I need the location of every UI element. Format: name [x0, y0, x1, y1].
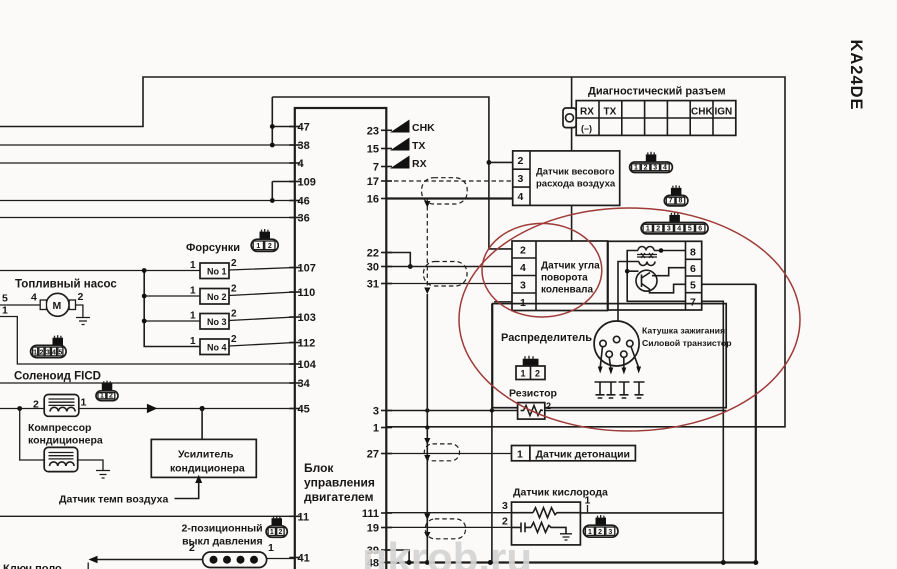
svg-text:46: 46: [298, 196, 310, 208]
svg-text:23: 23: [367, 125, 379, 137]
svg-text:Резистор: Резистор: [509, 388, 557, 400]
svg-text:Топливный насос: Топливный насос: [15, 279, 117, 291]
svg-text:8: 8: [678, 198, 682, 205]
svg-text:Датчик кислорода: Датчик кислорода: [513, 487, 608, 499]
svg-text:M: M: [53, 300, 62, 312]
svg-text:1: 1: [588, 529, 592, 536]
svg-text:CHK: CHK: [691, 107, 713, 118]
svg-text:2: 2: [502, 516, 508, 528]
svg-text:2: 2: [268, 243, 272, 250]
svg-text:2: 2: [520, 245, 526, 257]
svg-text:1: 1: [521, 369, 526, 379]
svg-text:6: 6: [690, 263, 696, 275]
svg-text:No 4: No 4: [207, 343, 227, 353]
svg-text:4: 4: [520, 262, 526, 274]
svg-text:RX: RX: [580, 107, 594, 118]
svg-text:19: 19: [367, 523, 379, 535]
svg-text:RX: RX: [412, 158, 427, 170]
svg-text:5: 5: [58, 350, 62, 357]
svg-text:Усилитель: Усилитель: [178, 449, 234, 461]
svg-text:пkrob.ru: пkrob.ru: [362, 534, 532, 569]
svg-text:1: 1: [190, 286, 196, 297]
svg-text:4: 4: [31, 292, 37, 304]
svg-text:CHK: CHK: [412, 122, 435, 134]
svg-text:No 3: No 3: [207, 317, 227, 327]
svg-text:2: 2: [33, 399, 39, 411]
svg-text:2: 2: [231, 284, 237, 295]
svg-text:5: 5: [2, 293, 8, 305]
svg-text:45: 45: [298, 404, 310, 416]
svg-text:3: 3: [608, 529, 612, 536]
svg-text:(–): (–): [581, 124, 592, 134]
svg-text:Компрессор: Компрессор: [28, 422, 91, 434]
svg-text:Распределитель: Распределитель: [501, 332, 592, 344]
svg-text:47: 47: [298, 122, 310, 134]
svg-text:34: 34: [298, 378, 311, 390]
svg-text:No 2: No 2: [207, 292, 227, 302]
svg-text:расхода воздуха: расхода воздуха: [536, 179, 616, 190]
svg-text:TX: TX: [604, 107, 617, 118]
svg-text:112: 112: [298, 338, 316, 350]
svg-text:17: 17: [367, 176, 379, 188]
svg-text:7: 7: [373, 162, 379, 174]
svg-text:кондиционера: кондиционера: [170, 463, 245, 475]
svg-text:Силовой транзистор: Силовой транзистор: [642, 338, 732, 348]
svg-text:3: 3: [667, 226, 671, 233]
svg-text:1: 1: [33, 350, 37, 357]
svg-text:2-позиционный: 2-позиционный: [182, 523, 263, 535]
svg-text:7: 7: [690, 297, 696, 309]
svg-text:8: 8: [690, 247, 696, 259]
svg-text:31: 31: [367, 279, 379, 291]
svg-text:Ключ поло: Ключ поло: [3, 563, 62, 569]
svg-text:2: 2: [109, 392, 113, 399]
svg-text:1: 1: [256, 243, 260, 250]
svg-text:4: 4: [677, 226, 681, 233]
svg-text:2: 2: [535, 369, 540, 379]
svg-text:1: 1: [2, 305, 8, 317]
svg-text:103: 103: [298, 312, 316, 324]
svg-text:2: 2: [231, 334, 237, 345]
svg-text:TX: TX: [412, 140, 425, 152]
svg-text:4: 4: [518, 191, 524, 203]
svg-text:2: 2: [518, 155, 524, 167]
svg-text:2: 2: [78, 291, 84, 303]
svg-text:2: 2: [231, 258, 237, 269]
svg-text:15: 15: [367, 144, 379, 156]
svg-text:Форсунки: Форсунки: [186, 242, 240, 254]
svg-text:1: 1: [190, 336, 196, 347]
svg-text:7: 7: [669, 198, 673, 205]
svg-text:1: 1: [634, 164, 638, 171]
svg-text:107: 107: [298, 263, 316, 275]
svg-text:3: 3: [373, 406, 379, 418]
svg-text:1: 1: [517, 449, 523, 461]
svg-text:22: 22: [367, 248, 379, 260]
svg-text:Блок: Блок: [304, 461, 334, 475]
svg-text:36: 36: [298, 213, 310, 225]
svg-text:2: 2: [644, 164, 648, 171]
svg-text:Соленоид FICD: Соленоид FICD: [14, 371, 101, 383]
svg-text:4: 4: [298, 158, 305, 170]
svg-text:5: 5: [690, 280, 696, 292]
svg-text:3: 3: [502, 500, 508, 512]
svg-text:коленвала: коленвала: [541, 285, 593, 296]
svg-text:2: 2: [189, 542, 195, 554]
svg-text:Датчик угла: Датчик угла: [541, 261, 600, 272]
svg-text:3: 3: [520, 280, 526, 292]
svg-text:38: 38: [298, 140, 310, 152]
svg-text:1: 1: [268, 542, 274, 554]
svg-text:1: 1: [81, 397, 87, 409]
svg-text:27: 27: [367, 449, 379, 461]
svg-text:Датчик темп воздуха: Датчик темп воздуха: [59, 494, 168, 506]
svg-text:KA24DE: KA24DE: [847, 39, 865, 110]
svg-text:16: 16: [367, 194, 379, 206]
svg-text:Диагностический разъем: Диагностический разъем: [588, 86, 726, 98]
svg-text:2: 2: [39, 350, 43, 357]
svg-text:4: 4: [663, 164, 667, 171]
svg-text:3: 3: [46, 350, 50, 357]
svg-text:1: 1: [270, 529, 274, 536]
svg-text:кондиционера: кондиционера: [28, 435, 103, 447]
svg-text:104: 104: [298, 359, 317, 371]
svg-text:2: 2: [278, 529, 282, 536]
svg-text:2: 2: [598, 529, 602, 536]
svg-text:1: 1: [373, 423, 379, 435]
svg-text:2: 2: [546, 401, 551, 411]
svg-text:111: 111: [362, 508, 379, 520]
svg-text:No 1: No 1: [207, 267, 227, 277]
svg-text:30: 30: [367, 262, 379, 274]
svg-text:3: 3: [653, 164, 657, 171]
svg-text:1: 1: [190, 260, 196, 271]
svg-text:1: 1: [190, 311, 196, 322]
svg-text:1: 1: [646, 226, 650, 233]
svg-text:Датчик детонации: Датчик детонации: [536, 449, 631, 461]
svg-text:6: 6: [698, 226, 702, 233]
svg-text:109: 109: [298, 177, 316, 189]
svg-text:110: 110: [298, 287, 316, 299]
svg-text:2: 2: [231, 309, 237, 320]
svg-text:поворота: поворота: [541, 273, 588, 284]
svg-text:3: 3: [518, 173, 524, 185]
svg-text:5: 5: [688, 226, 692, 233]
svg-text:41: 41: [298, 553, 310, 565]
svg-text:1: 1: [585, 495, 591, 507]
svg-text:IGN: IGN: [715, 107, 733, 118]
svg-text:Катушка зажигания: Катушка зажигания: [642, 326, 725, 336]
svg-text:Датчик весового: Датчик весового: [536, 167, 615, 178]
svg-text:двигателем: двигателем: [304, 490, 374, 504]
svg-text:4: 4: [52, 350, 56, 357]
svg-text:11: 11: [298, 511, 310, 523]
svg-text:управления: управления: [304, 476, 375, 490]
svg-text:2: 2: [656, 226, 660, 233]
svg-text:1: 1: [100, 392, 104, 399]
